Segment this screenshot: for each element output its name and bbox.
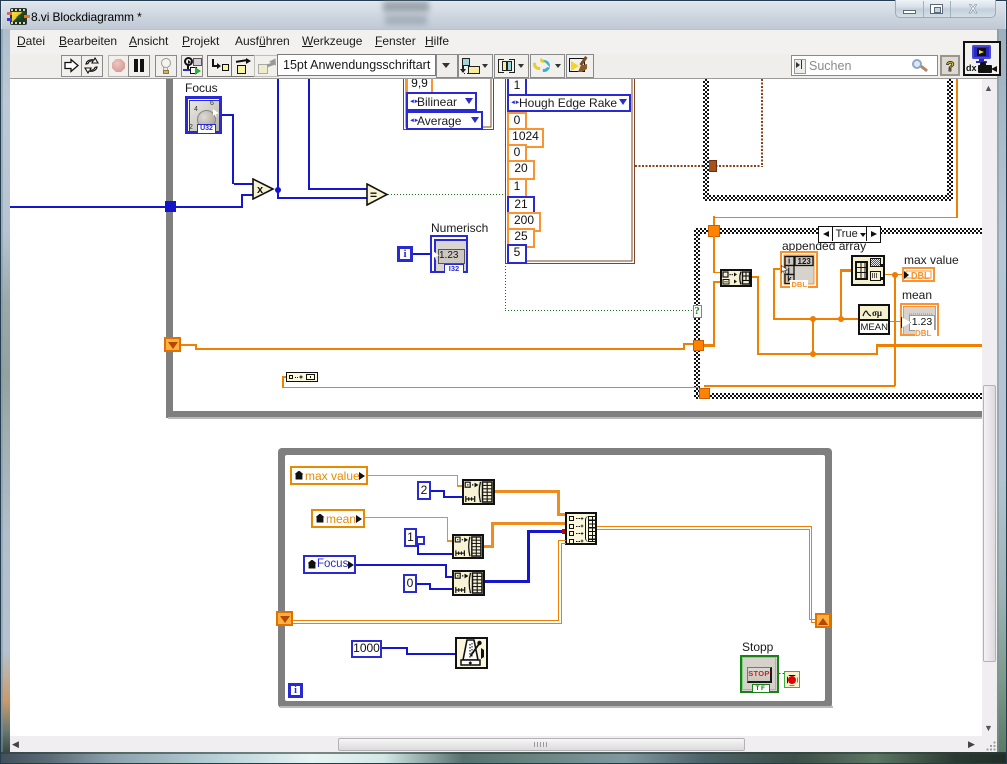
scrollbar corner + resize grip [982, 736, 997, 752]
concatenate build array node D [565, 512, 597, 545]
mean numeric indicator [900, 303, 939, 336]
multiply node [252, 178, 275, 200]
mean label [902, 288, 932, 302]
build array node B [452, 534, 484, 559]
wire: down from max output to bottom tunnel [894, 277, 896, 386]
Focus label [185, 81, 218, 95]
wait until next ms multiple node [455, 637, 488, 669]
orange wire from upper structure down to lower case tunnel [956, 79, 958, 218]
stop button (disabled) [108, 55, 130, 77]
run continuously button [81, 55, 103, 77]
window bottom aero strip [1, 752, 1006, 763]
run button [61, 55, 83, 77]
left aero border overlay [1, 29, 10, 752]
local variable: Focus [303, 555, 356, 574]
stop button terminal [740, 655, 779, 693]
constant 5 (blue) [507, 244, 527, 264]
wire: 0 to node C [417, 583, 430, 585]
shift register left (big loop) [164, 337, 181, 352]
wire: shift register to case tunnel [181, 344, 197, 346]
big while loop left border [166, 79, 173, 418]
case selector ? terminal [693, 305, 702, 318]
maximize glyph [930, 4, 943, 14]
build array node C [452, 570, 485, 596]
wire: node B output (thick) [484, 545, 494, 548]
wire: branch up to max min node [840, 269, 843, 319]
local variable: max value [290, 466, 368, 485]
constant 25 [507, 228, 535, 248]
lower case structure top border [694, 228, 982, 234]
cluster wire dotted brown horizontal [635, 165, 763, 167]
wire: Focus to node C [356, 564, 446, 566]
wire: left tunnel to insert node lower input (thick) [704, 344, 714, 347]
wire: 1000 to wait node [382, 647, 408, 649]
Numerisch indicator terminal [430, 235, 468, 273]
array max min node [851, 255, 885, 286]
tunnel: orange square top-left of case [708, 225, 720, 237]
appended array indicator [780, 251, 818, 288]
coercion dot red [562, 529, 567, 534]
tunnel: orange square bottom-left [699, 388, 710, 399]
font selector combo [277, 54, 436, 76]
max value label [904, 253, 959, 267]
wire: node A output (thick) [495, 490, 559, 493]
Average ring constant [406, 111, 483, 130]
wire: left shift register 2D array double line [293, 620, 559, 621]
tunnel: brown square on upper case border [705, 160, 717, 172]
wire: node C output (thick blue) [485, 580, 530, 583]
lower loop border [278, 448, 832, 708]
wire: top tunnel down to insert node upper input [713, 236, 715, 273]
big while loop border shadow [168, 417, 982, 419]
align objects dropdown [458, 54, 493, 78]
svg-text:i: i [788, 257, 790, 266]
distribute objects dropdown [494, 54, 529, 78]
local variable: mean [311, 509, 365, 528]
Bilinear ring constant [406, 92, 477, 111]
case selector "True" [818, 226, 881, 243]
wire: vertical into equals upper input [308, 79, 310, 189]
constant 1024 [507, 128, 544, 148]
constant 20 [507, 160, 535, 180]
dotted wire stop to LED [779, 673, 786, 675]
wire: 1 to node B [417, 545, 419, 555]
reorder dropdown [530, 54, 565, 78]
wire: mean to node B [365, 517, 448, 519]
wire: Focus to multiply [222, 114, 233, 116]
wire: multiply output right to equals [277, 190, 279, 198]
equals node [366, 183, 389, 206]
appended array label (behind selector) [782, 239, 866, 253]
i iteration terminal (lower loop) [288, 683, 303, 698]
tunnel: blue square on loop border [165, 201, 176, 212]
wire: max value to node A [368, 475, 458, 477]
constant 1000 [351, 640, 382, 658]
right aero border overlay [997, 29, 1006, 752]
horizontal scrollbar [10, 736, 982, 752]
constant 1 [404, 528, 417, 547]
upper case structure right border [947, 79, 953, 201]
initialize array node (outside case) [286, 372, 318, 382]
max value DBL indicator [902, 267, 935, 282]
highlight execution (bulb) button [155, 55, 177, 77]
constant 1 [507, 178, 527, 198]
toolbar [10, 54, 997, 79]
svg-text:123: 123 [798, 257, 812, 266]
step into button [207, 55, 232, 77]
wire: 2 to node A [431, 490, 444, 492]
menu bar [10, 30, 997, 54]
cluster wire dotted brown vertical [761, 79, 763, 166]
cluster constant: interpolation settings [403, 72, 494, 130]
wire: initialize array loops to tunnel [282, 376, 286, 378]
lower case structure left border [694, 228, 700, 399]
cluster constant: Hough Edge Rake parameters [505, 72, 635, 264]
insert into array node (case) [720, 269, 752, 287]
step over button [231, 55, 256, 77]
shift register left (lower loop) [276, 611, 293, 626]
big while loop bottom border [166, 411, 982, 418]
pause button [128, 55, 150, 77]
wire: max min output to DBL indicator [885, 274, 902, 276]
title bar blurred overlay remnant [383, 1, 429, 12]
build array node A [462, 479, 495, 505]
junction dot at multiply output [275, 187, 281, 193]
junction dot at max output [892, 272, 898, 278]
Focus knob control terminal [185, 96, 222, 134]
constant 200 [507, 212, 541, 232]
retain wire values button [181, 55, 203, 77]
wire: tunnel to multiply [176, 206, 242, 208]
upper case structure left border [703, 79, 709, 201]
Numerisch label [431, 221, 488, 235]
shift register right (lower loop) [815, 613, 831, 628]
vertical scrollbar [982, 79, 997, 736]
lower case structure bottom border [694, 393, 982, 399]
search box [791, 55, 938, 76]
svg-text:DBL: DBL [792, 280, 808, 288]
close glyph [965, 3, 981, 15]
wire: i to Numerisch [413, 253, 430, 255]
Hough Edge Rake ring constant [507, 94, 631, 112]
wire: left input blue horizontal [8, 206, 166, 208]
constant 2 [417, 481, 431, 500]
help button [940, 55, 960, 76]
wire: MEAN output [890, 321, 901, 323]
dx recorder overlay icon [963, 41, 1001, 76]
i iteration terminal (big loop) [397, 246, 413, 262]
caption buttons [895, 0, 996, 18]
constant 1 (blue) [507, 77, 527, 98]
minimize glyph [903, 10, 916, 14]
svg-text:=: = [370, 188, 377, 202]
junction dots [810, 316, 816, 322]
Stopp label [742, 640, 773, 654]
mean indicator input arrow [901, 317, 911, 328]
constant 0 [507, 144, 527, 164]
wire: multiply output up to frame top [277, 79, 279, 189]
wire: branch up to appended array indicator [812, 319, 815, 355]
upper case structure bottom border [703, 195, 953, 201]
wire: node D output 2D array double line [597, 526, 812, 527]
wire: boolean dotted from equals [388, 194, 506, 195]
tunnel: orange square left border mid [693, 340, 704, 351]
title text [31, 10, 142, 24]
svg-text:x: x [257, 184, 264, 196]
stop LED indicator [784, 671, 800, 688]
constant 9,9 [406, 74, 433, 94]
constant 0 [507, 112, 527, 132]
wire: insert node output down and right (thick) [752, 276, 759, 279]
constant 21 (blue) [507, 196, 535, 216]
constant 0 [403, 574, 417, 593]
MEAN node [858, 304, 890, 335]
clean up diagram button [566, 54, 594, 78]
LabVIEW titlebar icon [10, 8, 27, 25]
step out button (disabled) [254, 55, 279, 77]
